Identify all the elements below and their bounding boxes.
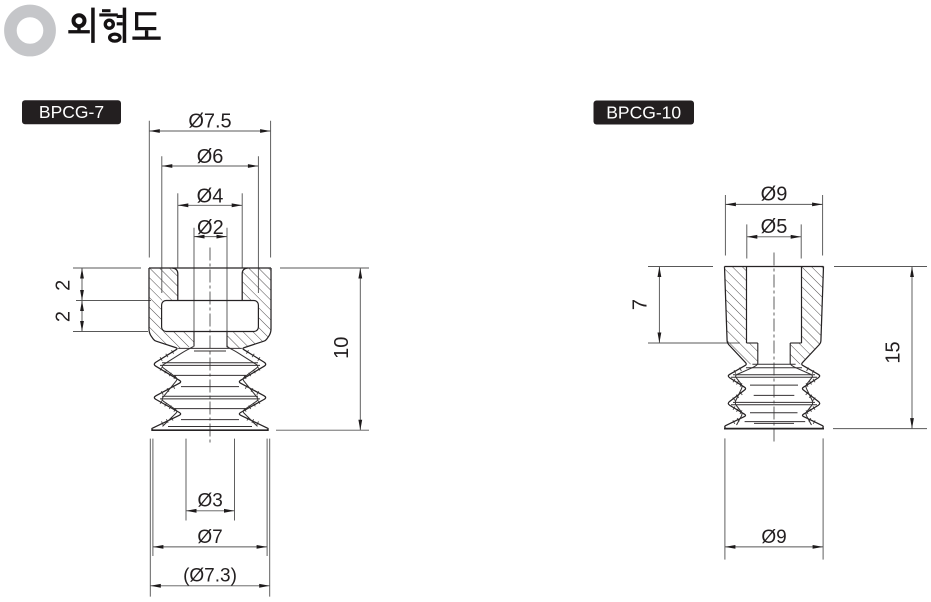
hatch bellows left BPCG-10 — [733, 368, 743, 424]
dimension (Ø7.3) — [150, 439, 269, 597]
dimension 10 — [331, 268, 362, 430]
top edge BPCG-7 — [149, 267, 271, 269]
centerline BPCG-10 — [773, 253, 775, 444]
dimension &#216;4 — [178, 185, 242, 267]
dimension &#216;3 — [186, 439, 235, 521]
dimension 2 upper — [53, 268, 84, 332]
label BPCG-7 — [22, 100, 121, 124]
svg-text:7: 7 — [630, 299, 652, 310]
top edge BPCG-10 — [725, 266, 824, 268]
hatch flange left BPCG-7 — [149, 268, 194, 348]
bellows interior lines BPCG-7 — [160, 348, 260, 426]
bore bottom shoulders — [747, 342, 758, 344]
svg-text:Ø6: Ø6 — [197, 146, 224, 168]
extension line bore bottom left — [648, 342, 740, 344]
opening Ø4 edges — [172, 268, 178, 301]
extension line top surface right BPCG-10 — [834, 266, 927, 268]
svg-text:BPCG-10: BPCG-10 — [606, 102, 681, 122]
bellows interior lines BPCG-10 — [731, 364, 817, 423]
hatch bellows right BPCG-10 — [806, 368, 816, 424]
outline BPCG-10 body left — [725, 267, 747, 429]
svg-text:Ø4: Ø4 — [197, 185, 224, 207]
svg-text:Ø5: Ø5 — [761, 216, 788, 238]
outline BPCG-10 body right — [802, 267, 824, 429]
hatch flange right BPCG-7 — [227, 268, 272, 348]
dimension Ø7 — [153, 439, 267, 556]
dimension Ø9 bottom — [725, 438, 823, 559]
svg-text:Ø9: Ø9 — [761, 527, 786, 548]
extension line top surface left BPCG-10 — [648, 266, 713, 268]
outline BPCG-7 body right — [239, 268, 271, 430]
suction face edge BPCG-10 — [724, 428, 824, 430]
svg-text:10: 10 — [331, 337, 353, 359]
hole Ø2 walls — [193, 332, 195, 347]
inner wall bellows right BPCG-7 — [227, 347, 258, 427]
hatch bellows left BPCG-7 — [160, 350, 176, 425]
extension line top surface left — [73, 267, 141, 269]
inner hole walls BPCG-10 — [757, 343, 759, 364]
extension line cavity top left — [76, 300, 151, 302]
dimension 7 — [630, 267, 662, 344]
centerline BPCG-7 — [209, 248, 211, 444]
extension line cavity bottom left — [73, 331, 148, 333]
svg-text:Ø7.5: Ø7.5 — [188, 111, 231, 133]
cavity Ø6 outline — [162, 301, 259, 332]
outline BPCG-7 body left — [149, 268, 181, 430]
hatch flange left BPCG-10 — [725, 267, 758, 365]
hatch flange right BPCG-10 — [790, 267, 823, 365]
svg-text:Ø3: Ø3 — [198, 491, 223, 512]
extension line lip bottom right BPCG-10 — [833, 428, 927, 430]
svg-text:BPCG-7: BPCG-7 — [39, 102, 104, 122]
dimension &#216;6 — [162, 146, 259, 293]
svg-text:Ø7: Ø7 — [197, 527, 222, 548]
svg-text:(Ø7.3): (Ø7.3) — [183, 565, 237, 586]
svg-text:2: 2 — [53, 280, 75, 291]
title text 외형도 (drawn) — [68, 8, 160, 43]
extension line lip bottom right — [276, 429, 369, 431]
bore Ø5 walls — [746, 267, 748, 344]
extension line top surface right — [280, 267, 369, 269]
hatch bellows right BPCG-7 — [244, 350, 260, 425]
dimension &#216;5 — [747, 216, 801, 259]
inner wall bellows left BPCG-7 — [162, 347, 193, 427]
suction face edge BPCG-7 — [151, 429, 268, 431]
svg-text:Ø9: Ø9 — [761, 183, 788, 205]
inner wall bellows right BPCG-10 — [790, 364, 813, 425]
dimension &#216;7.5 — [149, 111, 270, 258]
label BPCG-10 — [594, 101, 695, 125]
title icon : gray ring — [10, 11, 49, 50]
dimension 15 — [883, 267, 914, 429]
dimension Ø2 — [194, 217, 227, 332]
dimension &#216;9 — [725, 183, 822, 255]
svg-text:15: 15 — [883, 341, 905, 363]
svg-text:Ø2: Ø2 — [197, 217, 224, 239]
svg-text:2: 2 — [53, 311, 75, 322]
inner wall bellows left BPCG-10 — [735, 364, 758, 425]
